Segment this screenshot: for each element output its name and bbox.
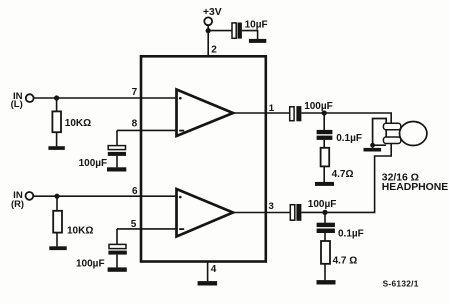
op-amp A2 xyxy=(177,189,234,237)
wire supply to C1 xyxy=(208,30,232,32)
resistor R2 10K xyxy=(53,211,62,233)
wire junction to C5 xyxy=(323,113,325,130)
ground C3 xyxy=(108,267,127,271)
svg-text:HEADPHONE: HEADPHONE xyxy=(382,182,448,193)
node output R junction xyxy=(322,210,327,215)
wire output pin 3 xyxy=(233,212,290,214)
ground headphone xyxy=(364,148,382,152)
ground R3 xyxy=(315,182,334,186)
A1 noninverting marker + xyxy=(179,97,182,100)
resistor R4 4.7ohm xyxy=(321,241,330,264)
node headphone common xyxy=(370,143,375,148)
wire common stub xyxy=(372,145,374,148)
node input R junction xyxy=(54,194,59,199)
wire C1 to ground xyxy=(242,31,258,40)
capacitor C4 100uF output L xyxy=(290,107,294,121)
svg-text:10KΩ: 10KΩ xyxy=(65,118,91,129)
node output L junction xyxy=(322,110,327,115)
input terminal L xyxy=(26,94,34,102)
ground R4 xyxy=(317,280,336,284)
node supply junction xyxy=(206,28,211,33)
headphone upper lug xyxy=(383,123,400,129)
wire C3 to ground xyxy=(116,255,118,268)
svg-text:0.1µF: 0.1µF xyxy=(336,133,362,144)
svg-text:100µF: 100µF xyxy=(304,101,333,112)
op-amp A1 xyxy=(177,90,234,137)
wire pin5 down to C3 xyxy=(116,229,118,245)
ground C2 xyxy=(107,167,126,171)
svg-text:4.7Ω: 4.7Ω xyxy=(332,169,354,180)
input terminal R xyxy=(26,192,34,200)
wire junction to R2 xyxy=(56,196,58,211)
supply terminal xyxy=(204,17,212,25)
wire pin8 xyxy=(117,129,176,131)
svg-text:100µF: 100µF xyxy=(79,158,108,169)
svg-text:100µF: 100µF xyxy=(308,199,337,210)
svg-text:3: 3 xyxy=(269,201,274,212)
wire C6 to headphone bottom xyxy=(301,144,391,213)
svg-text:8: 8 xyxy=(132,119,138,130)
wire supply to pin 2 xyxy=(207,31,209,56)
resistor R1 10K xyxy=(52,111,61,132)
node input L junction xyxy=(54,95,59,100)
capacitor C1 10uF xyxy=(232,23,236,38)
wire common to lower lug xyxy=(373,144,386,146)
capacitor C2 100uF xyxy=(108,146,125,150)
wire pin 4 xyxy=(207,262,209,281)
ground supply xyxy=(249,39,266,43)
wire C7 to R4 xyxy=(324,233,326,241)
wire junction to R1 xyxy=(56,98,58,111)
svg-text:4.7 Ω: 4.7 Ω xyxy=(333,256,358,267)
capacitor C3 100uF xyxy=(109,244,126,248)
svg-text:6: 6 xyxy=(132,186,138,197)
wire pin5 xyxy=(117,228,176,230)
wire pin7 input L xyxy=(34,97,176,99)
wire junction to C7 xyxy=(324,212,326,222)
svg-text:1: 1 xyxy=(269,103,275,114)
ground R2 xyxy=(49,246,66,250)
A2 noninverting marker + xyxy=(179,196,182,199)
wire supply stub xyxy=(207,25,209,31)
wire R3 to ground xyxy=(323,166,325,182)
svg-text:5: 5 xyxy=(131,219,137,230)
svg-text:(R): (R) xyxy=(11,199,24,209)
svg-text:+3V: +3V xyxy=(203,7,222,18)
svg-text:100µF: 100µF xyxy=(76,259,105,270)
wire C5 to R3 xyxy=(323,140,325,148)
svg-text:7: 7 xyxy=(132,87,138,98)
svg-text:2: 2 xyxy=(211,44,217,55)
svg-text:4: 4 xyxy=(211,264,217,275)
wire R1 to ground xyxy=(56,132,58,146)
wire R4 to ground xyxy=(324,264,326,280)
ground R1 xyxy=(48,146,64,150)
capacitor C7 0.1uF xyxy=(317,223,335,227)
wire pin8 down to C2 xyxy=(116,130,118,145)
A1 inverting marker - xyxy=(179,130,184,132)
svg-text:10µF: 10µF xyxy=(245,19,268,30)
capacitor C5 0.1uF xyxy=(317,130,333,134)
wire C4 to headphone top xyxy=(301,113,391,123)
headphone earpiece xyxy=(400,122,427,146)
resistor R3 4.7ohm xyxy=(321,148,330,167)
wire pin6 input R xyxy=(33,195,176,197)
A2 inverting marker - xyxy=(179,228,184,230)
headphone lower lug xyxy=(383,137,400,144)
svg-text:S-6132/1: S-6132/1 xyxy=(383,278,419,288)
ground pin 4 xyxy=(198,281,218,285)
svg-text:0.1µF: 0.1µF xyxy=(338,228,364,239)
headphone jack body xyxy=(373,119,387,145)
capacitor C6 100uF output R xyxy=(290,205,295,221)
wire R2 to ground xyxy=(56,233,58,247)
wire C2 to ground xyxy=(116,156,118,168)
svg-text:(L): (L) xyxy=(11,99,23,109)
wire output pin 1 xyxy=(233,112,290,114)
svg-text:10KΩ: 10KΩ xyxy=(67,226,93,237)
IC package U1 xyxy=(141,56,266,261)
